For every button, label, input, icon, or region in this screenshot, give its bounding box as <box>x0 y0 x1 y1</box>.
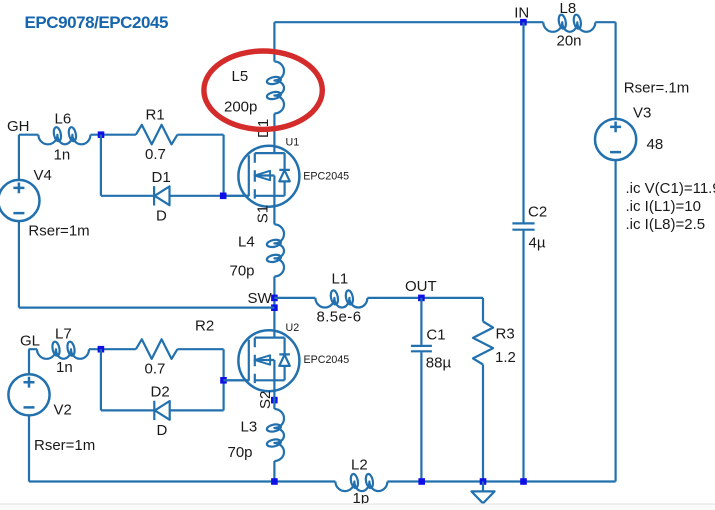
svg-text:.ic I(L1)=10: .ic I(L1)=10 <box>626 198 701 215</box>
svg-text:IN: IN <box>514 5 529 22</box>
svg-text:C2: C2 <box>528 204 547 221</box>
svg-text:D: D <box>156 207 167 224</box>
svg-text:EPC9078/EPC2045: EPC9078/EPC2045 <box>25 13 169 32</box>
svg-text:0.7: 0.7 <box>145 146 166 163</box>
wire L5 top lead <box>273 22 275 61</box>
svg-text:R3: R3 <box>496 325 515 342</box>
wire D2 row <box>101 349 224 410</box>
node junction C2/rail <box>520 478 527 485</box>
svg-text:4µ: 4µ <box>529 235 546 252</box>
inductor L8 <box>543 14 595 32</box>
svg-text:8.5e-6: 8.5e-6 <box>317 309 362 326</box>
inductor L2 <box>335 473 387 491</box>
svg-text:U1: U1 <box>286 137 300 149</box>
wire GL row <box>29 349 249 410</box>
wire S2 lead <box>273 391 275 409</box>
svg-text:U2: U2 <box>286 322 300 334</box>
resistor R1 <box>136 125 178 145</box>
node junction V4 return <box>271 304 278 311</box>
svg-text:C1: C1 <box>426 326 445 343</box>
wire SW row to OUT <box>274 298 483 482</box>
svg-text:0.7: 0.7 <box>145 360 166 377</box>
diode D2 <box>154 401 169 420</box>
svg-text:L3: L3 <box>241 418 258 435</box>
wire L5 to U1 drain <box>273 114 275 146</box>
inductor L6 <box>38 127 90 145</box>
svg-text:70p: 70p <box>230 263 255 280</box>
svg-text:Rser=.1m: Rser=.1m <box>624 79 689 96</box>
svg-text:V4: V4 <box>34 167 52 184</box>
inductor L5 <box>266 62 284 114</box>
svg-text:R1: R1 <box>146 107 165 124</box>
svg-text:L7: L7 <box>55 325 72 342</box>
ground <box>482 482 484 492</box>
node junction R2/D2/gate <box>220 377 227 384</box>
svg-text:V3: V3 <box>633 104 651 121</box>
svg-text:70p: 70p <box>228 444 253 461</box>
svg-text:1.2: 1.2 <box>495 349 516 366</box>
node junction L3/rail <box>271 478 278 485</box>
inductor L3 <box>266 409 284 461</box>
wire S1 lead <box>273 207 275 225</box>
node junction C1/rail <box>418 478 425 485</box>
svg-text:EPC2045: EPC2045 <box>303 171 349 183</box>
svg-text:1n: 1n <box>56 359 73 376</box>
svg-text:SW: SW <box>248 290 273 307</box>
voltage source V4 <box>19 135 275 308</box>
svg-text:.ic I(L8)=2.5: .ic I(L8)=2.5 <box>626 216 706 233</box>
svg-text:D2: D2 <box>151 383 170 400</box>
svg-text:GL: GL <box>20 333 40 350</box>
svg-text:200p: 200p <box>224 99 257 116</box>
capacitor C2 <box>522 22 524 481</box>
svg-text:D: D <box>157 422 168 439</box>
svg-text:L8: L8 <box>560 0 577 17</box>
svg-text:.ic V(C1)=11.9: .ic V(C1)=11.9 <box>626 180 715 197</box>
svg-text:Rser=1m: Rser=1m <box>34 437 95 454</box>
inductor L1 <box>315 290 367 308</box>
bottom window edge <box>0 504 715 510</box>
svg-text:L2: L2 <box>351 456 368 473</box>
svg-text:D1: D1 <box>152 169 171 186</box>
svg-text:Rser=1m: Rser=1m <box>28 222 89 239</box>
diode D1 <box>154 186 169 205</box>
resistor R3 <box>473 322 493 365</box>
inductor L4 <box>266 224 284 276</box>
svg-text:1n: 1n <box>54 146 71 163</box>
svg-text:V2: V2 <box>54 401 72 418</box>
transistor U2 <box>223 330 299 391</box>
wire bottom rail <box>29 480 616 482</box>
svg-text:88µ: 88µ <box>426 354 452 371</box>
wire L3 to rail <box>273 461 275 482</box>
capacitor C1 <box>420 298 422 482</box>
svg-text:L1: L1 <box>332 270 349 287</box>
inductor L7 <box>37 341 89 359</box>
voltage source V2 <box>28 349 30 481</box>
svg-text:L6: L6 <box>55 111 72 128</box>
node junction R1/D1/gate <box>220 193 227 200</box>
svg-text:L5: L5 <box>232 68 249 85</box>
wire GH row <box>19 135 249 196</box>
node junction R3/rail <box>480 478 487 485</box>
node junction L6/R1/D1 <box>98 131 105 138</box>
svg-text:20n: 20n <box>557 33 582 50</box>
svg-text:R2: R2 <box>195 318 214 335</box>
svg-text:OUT: OUT <box>405 278 437 295</box>
wire L4 to U2 drain <box>273 276 275 330</box>
svg-text:L4: L4 <box>238 233 255 250</box>
svg-text:48: 48 <box>647 136 664 153</box>
svg-text:GH: GH <box>7 118 30 135</box>
node junction L7/R2/D2 <box>98 346 105 353</box>
node SW <box>271 295 278 302</box>
transistor U1 <box>223 146 299 207</box>
node OUT <box>418 295 425 302</box>
voltage source V3 <box>614 22 616 481</box>
resistor R2 <box>136 339 178 359</box>
svg-text:S1: S1 <box>254 205 271 223</box>
red ellipse annotation <box>204 51 322 129</box>
node IN <box>520 19 527 26</box>
svg-text:EPC2045: EPC2045 <box>304 354 350 366</box>
wire D1 row <box>101 135 224 196</box>
wire top rail <box>274 21 615 23</box>
